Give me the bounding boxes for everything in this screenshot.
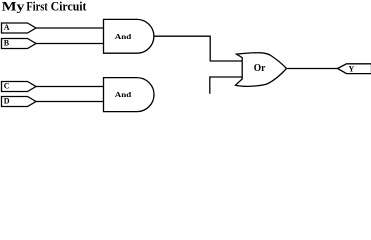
wire A to AND1	[36, 27, 104, 29]
output pin Y	[338, 64, 371, 74]
svg-text:D: D	[4, 97, 10, 106]
wire AND1 output to OR top input (step)	[154, 36, 242, 61]
svg-text:Y: Y	[349, 64, 355, 73]
svg-text:And: And	[115, 32, 132, 41]
and-gate U1	[104, 19, 154, 53]
wire OR output to Y	[286, 68, 338, 70]
svg-text:Circuit: Circuit	[51, 0, 88, 14]
or-gate U3	[236, 53, 287, 87]
input pin C	[2, 82, 37, 92]
and-gate U2	[104, 78, 155, 112]
svg-text:C: C	[4, 82, 10, 91]
svg-text:And: And	[115, 90, 132, 99]
wire OR bottom input with stub down toward AND2	[210, 77, 243, 94]
wire C to AND2	[36, 86, 104, 88]
svg-text:First: First	[26, 0, 48, 14]
input pin B	[2, 39, 37, 49]
wire D to AND2	[36, 101, 104, 103]
svg-text:My: My	[2, 0, 26, 14]
input pin D	[2, 97, 37, 107]
wire B to AND1	[36, 43, 104, 45]
svg-text:Or: Or	[254, 62, 266, 74]
svg-text:B: B	[4, 39, 10, 48]
svg-text:A: A	[4, 23, 10, 32]
input pin A	[2, 23, 37, 33]
